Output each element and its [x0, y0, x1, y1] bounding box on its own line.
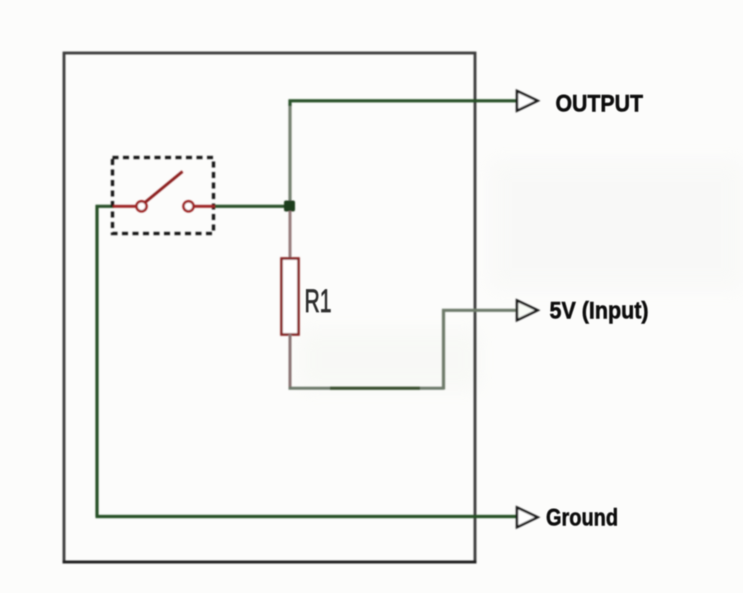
background jpeg tint patch lower mid — [300, 330, 480, 390]
enclosure box — [64, 53, 475, 562]
wire: 5V net bottom horizontal dark center — [330, 387, 420, 390]
switch S1 terminal 2 — [184, 201, 194, 211]
wire: switch to junction horizontal — [214, 205, 287, 208]
svg-text:R1: R1 — [305, 283, 332, 319]
wire: junction to OUTPUT vertical top corner — [288, 100, 291, 107]
resistor R1 lead top — [289, 211, 292, 259]
wire: 5V net bottom horizontal — [289, 387, 445, 390]
wire: switch left stub green — [96, 205, 115, 208]
svg-text:OUTPUT: OUTPUT — [556, 91, 644, 118]
enclosure box bottom edge emphasis — [63, 561, 477, 564]
background jpeg tint patch upper right — [490, 160, 743, 290]
port 5V triangle — [517, 301, 538, 321]
wire: junction to OUTPUT vertical — [288, 104, 291, 202]
wire: 5V net vertical — [442, 309, 445, 390]
port OUTPUT triangle — [517, 91, 538, 111]
switch S1 dashed box — [113, 158, 214, 234]
resistor R1 lead bottom — [289, 334, 292, 387]
wire: left vertical to ground — [95, 205, 98, 517]
switch S1 lever — [146, 172, 183, 203]
switch S1 lead right — [194, 205, 216, 208]
svg-text:Ground: Ground — [546, 505, 618, 532]
wire: 5V net horizontal to port — [442, 309, 517, 312]
switch S1 terminal 1 — [137, 201, 147, 211]
junction node — [284, 201, 295, 212]
port Ground triangle — [517, 508, 538, 528]
wire: Ground net horizontal — [96, 515, 518, 518]
resistor R1 — [282, 259, 299, 335]
wire: OUTPUT net horizontal — [289, 99, 518, 102]
switch S1 lead left — [113, 205, 136, 208]
svg-text:5V (Input): 5V (Input) — [550, 298, 649, 325]
